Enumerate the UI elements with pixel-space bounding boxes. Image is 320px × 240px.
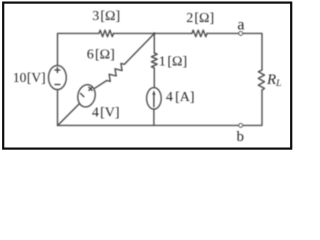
svg-text:6[Ω]: 6[Ω]: [87, 47, 115, 62]
I1 arrow head: [152, 90, 155, 95]
node a circle: [239, 32, 243, 36]
wire junction top to 1-ohm: [153, 33, 155, 53]
resistor R6 6ohm: [107, 63, 125, 81]
resistor R2 2ohm: [192, 30, 207, 37]
V2 minus sign rotated: [80, 93, 84, 97]
source V1 10V circle: [49, 65, 67, 89]
svg-text:a: a: [237, 17, 244, 34]
V1 minus sign: [54, 84, 60, 86]
svg-text:2[Ω]: 2[Ω]: [186, 11, 214, 26]
node b circle: [239, 124, 243, 128]
svg-text:RL: RL: [266, 72, 281, 89]
V1 plus sign: [54, 67, 60, 73]
wire 3-ohm to 2-ohm: [114, 32, 193, 34]
wire 2-ohm to node a: [207, 32, 239, 34]
svg-text:4[A]: 4[A]: [166, 90, 195, 105]
current source I1 4A circle: [147, 88, 162, 110]
border frame: [3, 3, 291, 149]
junction dot: [153, 32, 155, 34]
wire diagonal lower segment: [58, 104, 80, 126]
svg-text:4[V]: 4[V]: [92, 105, 120, 120]
wire diagonal upper segment: [95, 81, 107, 89]
resistor RL: [258, 70, 264, 90]
wire 6-ohm to junction: [124, 33, 154, 64]
wire top-left to 3-ohm: [58, 33, 100, 65]
wire current source to bottom: [153, 109, 155, 125]
svg-text:b: b: [236, 129, 244, 145]
svg-text:10[V]: 10[V]: [13, 70, 46, 85]
source V2 4V circle: [76, 83, 97, 108]
V2 plus sign rotated: [89, 87, 93, 91]
I1 arrow shaft: [153, 94, 155, 107]
wire node b to bottom-left: [58, 90, 240, 126]
resistor R1 1ohm: [151, 53, 157, 68]
wire RL to node b: [242, 90, 262, 125]
wire 1-ohm to current source: [153, 68, 155, 88]
wire node a to top-right corner: [242, 33, 262, 70]
svg-text:3[Ω]: 3[Ω]: [92, 9, 120, 24]
resistor R3 3ohm: [99, 30, 114, 37]
svg-text:1[Ω]: 1[Ω]: [159, 54, 187, 69]
